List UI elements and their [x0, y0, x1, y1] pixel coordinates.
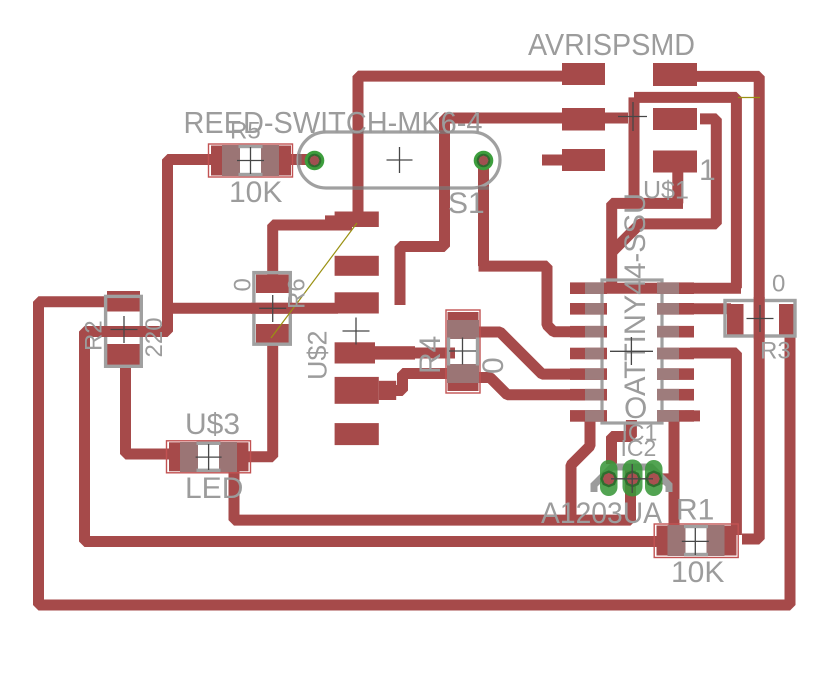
wire U$2 pad D jog up right to R4.2 — [382, 374, 450, 391]
wire from IC2 pin7 left stub down, jog to vertical, down to bottom H — [571, 418, 590, 520]
wire AVRISP pad5 stub, down, left, diagonal to junction — [612, 119, 716, 252]
wire R2.1 top pad left, down V0, bottom H, right edge up to R3.2 — [39, 302, 791, 605]
pad IC1.2 — [623, 460, 643, 497]
node pad nub — [325, 215, 335, 227]
svg-text:R4: R4 — [414, 336, 447, 374]
svg-text:U$2: U$2 — [303, 330, 333, 380]
wire R5.2 to S1.1 — [284, 154, 312, 165]
airwire top right — [738, 97, 760, 99]
wire U$2 pad C stub into R4 middle — [410, 348, 455, 359]
outline/copper blend marks — [298, 130, 637, 424]
wire AVRISP pad3 stub (dangling) — [542, 155, 566, 166]
svg-text:R6: R6 — [284, 278, 311, 309]
pad U$2.D stub — [379, 381, 396, 400]
wire node pad up through S1 to AVRISP pad1 — [358, 76, 566, 216]
cross U$1 — [618, 102, 647, 131]
pad IC1.3 — [645, 460, 663, 496]
svg-text:A1203UA: A1203UA — [541, 497, 662, 530]
pad U$2.A — [335, 256, 379, 276]
wire vertical from second horizontal left end down to pad6 H — [629, 97, 640, 203]
wire LED junction down and right to green pad IC1.2 — [234, 464, 631, 520]
svg-text:IC2: IC2 — [621, 435, 657, 461]
svg-text:U$3: U$3 — [185, 408, 240, 441]
wire AVRISP pad6 stub down — [672, 172, 683, 203]
svg-text:0: 0 — [230, 278, 257, 291]
LED U$3 — [167, 441, 251, 473]
pad U$2.C stub — [375, 346, 415, 359]
wire pad6 H left then down to IC2 pin1 row H — [612, 203, 683, 288]
wire AVRISP pad2 stub right to U$1 origin — [600, 113, 628, 124]
resistor R1 — [654, 524, 738, 558]
wire R6.1 top up then right to node pad — [273, 225, 352, 282]
svg-text:R3: R3 — [760, 338, 791, 365]
svg-text:0: 0 — [477, 357, 510, 374]
node pad end of S1 trace — [335, 212, 379, 228]
cross R3 — [747, 305, 774, 332]
svg-text:ATTINY44-SSU: ATTINY44-SSU — [619, 193, 652, 396]
svg-text:REED-SWITCH-MK6-4: REED-SWITCH-MK6-4 — [184, 105, 483, 140]
resistor R4 — [446, 310, 480, 393]
reed switch S1 outline — [298, 132, 500, 188]
resistor R2 — [106, 291, 142, 366]
svg-text:R1: R1 — [676, 494, 714, 527]
svg-text:R5: R5 — [230, 118, 261, 145]
origin crosses — [111, 102, 774, 555]
cross IC1 — [611, 464, 653, 493]
cross R2 — [111, 316, 138, 343]
hall sensor IC1 A1203UA package outline — [594, 467, 669, 492]
cross U$3 — [196, 444, 222, 470]
wire IC2 pin7 right extension — [685, 410, 700, 421]
svg-text:R2: R2 — [81, 320, 108, 351]
thru-hole pads of S1 — [305, 151, 494, 171]
cross IC2 — [610, 337, 653, 365]
pads IC2 left column pins 1-7 — [570, 282, 607, 421]
wire overlay crossing R2 — [103, 326, 144, 337]
thru-hole pads of IC1 — [600, 460, 663, 497]
wire IC2 bottom to green pad IC1.2 top — [612, 420, 632, 464]
pad U$1.3 — [562, 149, 605, 171]
pads IC2 right column pins 8-14 — [657, 282, 694, 421]
svg-text:0: 0 — [772, 271, 785, 298]
wire IC2 pin 11 right to vertical down to R1.2 — [690, 353, 736, 535]
svg-text:220: 220 — [141, 317, 168, 357]
pad U$2.D — [335, 377, 379, 404]
wire overlay crossing R3 — [754, 297, 765, 339]
wire R5.1 left, down V1, H1 across R2, down V2, bottom H to R1.1 — [85, 160, 669, 542]
svg-text:10K: 10K — [671, 556, 724, 589]
pad U$1.6 — [653, 151, 697, 173]
resistor R3 — [725, 301, 795, 337]
wire IC2 pin1 row horizontal — [572, 283, 741, 294]
pad U$1.5 — [653, 108, 697, 130]
connector U$1 AVRISPSMD pads — [325, 63, 697, 445]
cross R5 — [237, 147, 264, 174]
svg-text:1: 1 — [699, 154, 716, 187]
wire pad A H right end down, jog to IC2 pin 8... pin row3 left — [479, 266, 599, 332]
pad U$1.4 — [653, 63, 697, 86]
wire overlay crossing R6 — [251, 303, 293, 314]
wire R4.2 right diagonal to IC2 pin 9 — [473, 378, 598, 395]
cross R1 — [682, 528, 709, 555]
IC2 gray pin nubs (silkscreen over copper) — [585, 282, 679, 421]
resistor R6 — [254, 273, 290, 345]
svg-text:LED: LED — [185, 472, 243, 505]
wire IC2 pin13 right to R3.1 — [680, 303, 731, 314]
wire AVRISP pad4 right, down right edge through R3 to R1.2 — [690, 76, 759, 539]
pad S1.2 — [474, 151, 494, 171]
IC2 ATTINY44 SOIC14 pads — [570, 282, 694, 421]
pad IC1.1 — [600, 460, 618, 496]
svg-text:AVRISPSMD: AVRISPSMD — [528, 27, 695, 62]
wire AVRISP pad2 left, down through S1 oval, jog left, down to U$2 pad B — [400, 118, 566, 305]
svg-text:10K: 10K — [229, 176, 282, 209]
IC2 body outline — [602, 280, 662, 423]
pad S1.1 — [305, 151, 325, 171]
pad U$1.1 — [562, 63, 605, 85]
svg-text:S1: S1 — [448, 187, 485, 220]
wire IC2 pin14 right down through green pad IC1.3 to R1.1 — [658, 415, 674, 531]
wire AVRISP second horizontal and inner vertical down to IC2 pin1 row — [634, 97, 736, 288]
pad U$2.C — [335, 342, 375, 363]
silkscreen labels — [81, 27, 791, 589]
copper traces (top layer) — [39, 76, 791, 605]
wire branch V1 to U$2 pad B — [168, 303, 339, 314]
pad U$2.B — [335, 292, 379, 313]
pad U$2.E — [335, 423, 379, 445]
pad U$1.2 — [562, 108, 605, 131]
wire R6.2 bottom down to LED U$3.2 junction — [244, 338, 273, 457]
cross S1 — [387, 147, 413, 173]
wire R2.2 bottom down then right to LED U$3.1 — [126, 362, 173, 454]
cross R4 — [449, 338, 476, 365]
resistor R5 — [209, 144, 293, 177]
cross R6 — [259, 295, 286, 322]
wire R4.1 right diagonal to IC2 pin 10 — [473, 332, 598, 374]
airwire node to R6 — [271, 223, 357, 338]
wire S1.2 down to pad A horizontal — [478, 164, 489, 266]
cross U$2 — [343, 318, 370, 345]
